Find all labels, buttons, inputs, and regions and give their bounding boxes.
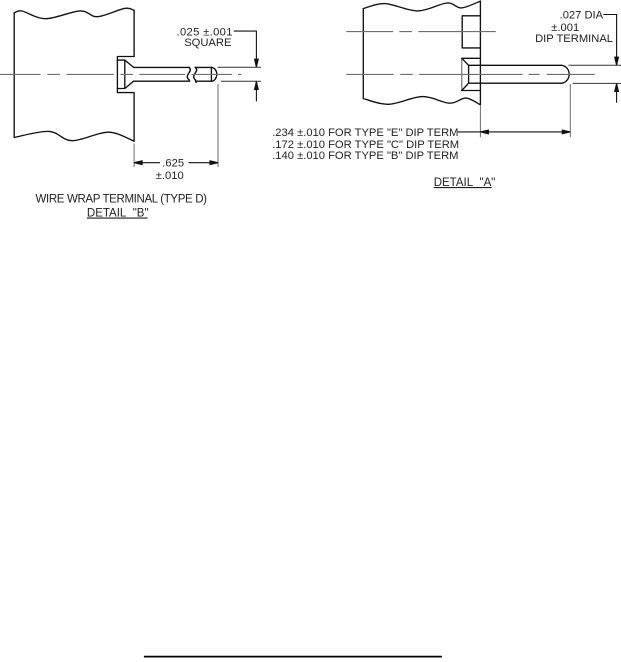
dimension line .234	[480, 131, 570, 133]
arrowhead .625 left	[134, 161, 142, 165]
extension line block bottom (left .625 dim)	[133, 144, 135, 168]
right block right edge	[479, 1, 481, 105]
svg-text:±.010: ±.010	[156, 170, 184, 182]
extension line right block edge (bottom dim)	[479, 105, 481, 137]
centerline (left detail)	[0, 73, 241, 75]
dip terminal head face	[461, 58, 463, 90]
arrowhead bottom dim left	[480, 130, 488, 134]
svg-text:DETAIL "A": DETAIL "A"	[434, 177, 496, 189]
right block body left edge	[362, 9, 364, 99]
svg-text:SQUARE: SQUARE	[184, 37, 231, 49]
extension line pin tip (left .625 dim)	[217, 84, 219, 167]
svg-text:.234 ±.010 FOR TYPE "E" DIP TE: .234 ±.010 FOR TYPE "E" DIP TERM	[272, 127, 458, 139]
dip pin dome tip	[562, 65, 570, 83]
right block body bottom break line	[363, 97, 480, 105]
wire wrap pin bottom line (right of break)	[196, 80, 211, 82]
extension line pin-top (left .025 dim)	[218, 66, 262, 68]
svg-text:.027 DIA: .027 DIA	[560, 9, 604, 21]
pin tip chord	[210, 67, 212, 81]
left block body bottom break line	[14, 131, 134, 141]
dip pin top line	[469, 64, 562, 66]
extension line pin-bottom (left .025 dim)	[221, 80, 261, 82]
dip terminal head notch (right)	[462, 58, 481, 90]
dip pin bottom line	[469, 82, 562, 84]
wire wrap pin top line (left of break)	[134, 66, 189, 68]
wire wrap pin bottom line (left of break)	[134, 80, 189, 82]
dip terminal head cone	[462, 58, 469, 90]
footer rule	[144, 656, 442, 658]
arrow down to pin top (left)	[255, 59, 259, 67]
extension line dip pin top (.027 dim)	[569, 64, 621, 66]
arrow down to dip pin top	[615, 57, 619, 65]
centerline (right detail, lower)	[346, 73, 595, 75]
arrow up to dip pin bottom	[615, 84, 619, 92]
boss rectangle on right edge	[462, 16, 480, 48]
left block right edge with notch	[117, 10, 134, 141]
svg-text:WIRE WRAP TERMINAL (TYPE D): WIRE WRAP TERMINAL (TYPE D)	[36, 194, 208, 206]
svg-text:.625: .625	[162, 158, 184, 170]
terminal head (left): cap and cone	[117, 60, 133, 88]
left block body left edge	[13, 13, 15, 137]
left block body top break line	[14, 8, 134, 19]
right block body top break line	[363, 1, 480, 11]
svg-text:.140 ±.010 FOR TYPE "B" DIP TE: .140 ±.010 FOR TYPE "B" DIP TERM	[272, 150, 458, 162]
wire wrap pin top line (right of break)	[195, 66, 211, 68]
arrow up to pin bottom (left)	[255, 81, 259, 89]
underline DETAIL A	[434, 187, 492, 189]
S-break curve 1	[187, 67, 190, 81]
S-break curve 2	[194, 67, 197, 82]
leader .025 square	[234, 31, 257, 59]
arrowhead bottom dim right	[562, 130, 570, 134]
dimension line .625 right segment	[189, 162, 219, 164]
leader .027 dia	[603, 15, 616, 58]
extension line dip pin tip (bottom dim)	[569, 84, 571, 137]
extension line dip pin bottom (.027 dim)	[573, 82, 621, 84]
arrowhead .625 right	[210, 161, 218, 165]
centerline (right detail, upper)	[346, 31, 496, 33]
pin tip dome	[211, 67, 216, 81]
dimension line .625 left segment	[134, 162, 160, 164]
underline DETAIL B	[87, 217, 148, 219]
leader from .234 text row	[458, 131, 481, 133]
svg-text:DIP TERMINAL: DIP TERMINAL	[535, 33, 613, 45]
